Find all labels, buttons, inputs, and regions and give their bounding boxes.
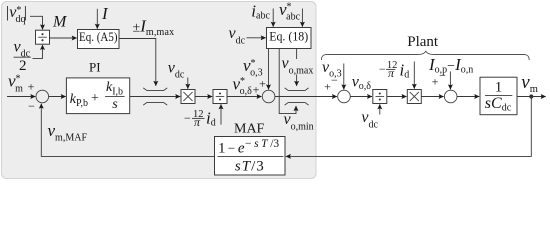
wire S2 through SAT2 to S3 [275, 96, 337, 98]
node v*o,delta label [233, 74, 253, 97]
wire Eq.(18) to vo,min limit [279, 49, 296, 114]
node vdc label (multiplier X1) [168, 60, 185, 81]
node M label [52, 14, 68, 31]
summing junction S1 [36, 90, 49, 103]
node Plant label [407, 34, 439, 50]
node MAF label [234, 122, 265, 137]
node vo,3 label (plant) [322, 59, 342, 80]
summing junction S2 [262, 90, 275, 103]
svg-text:−: − [184, 111, 191, 125]
svg-text:Plant: Plant [407, 34, 439, 50]
wire PI to multiplier X1 [130, 96, 181, 98]
controller background region [2, 2, 317, 179]
multiplier block X1 [181, 90, 195, 104]
svg-text:+: + [324, 80, 331, 94]
wire X1 to divider D2 [195, 96, 212, 98]
summing junction S3 [338, 90, 351, 103]
wire vm feedback to MAF [286, 97, 531, 157]
node S1 minus sign [28, 99, 35, 113]
node S2 plus sign (top) [259, 77, 266, 91]
wire v*o,3 from Eq.(18) to S2 [268, 49, 270, 89]
wire I input [96, 9, 98, 29]
node S4 minus sign [439, 69, 446, 83]
node vo,max label [281, 55, 314, 76]
node vdc label (plant divider D3) [361, 109, 378, 130]
svg-text:π: π [194, 115, 201, 129]
wire v*m input [7, 96, 35, 98]
saturation limiter SAT2 [285, 88, 309, 105]
node S2 plus sign (left) [253, 83, 260, 97]
svg-text:M: M [52, 14, 68, 31]
node vm junction dot [529, 94, 533, 98]
wire Eq.(18) to vo,max limit [296, 49, 298, 86]
block Eq. (18) [267, 28, 312, 49]
wire D2 to summing junction S2 [227, 96, 262, 98]
svg-text:−: − [28, 99, 35, 113]
saturation limiter SAT1 [143, 88, 167, 105]
svg-text:Eq. (18): Eq. (18) [269, 29, 308, 44]
wire vdc to divider D3 [379, 104, 381, 114]
wire S3 to divider D3 [350, 96, 372, 98]
wire M: divider to Eq.(A5) [50, 37, 77, 39]
node v*m label [8, 72, 23, 95]
svg-text:π: π [388, 66, 395, 80]
wire id to divider D2 [220, 104, 222, 124]
node S1 plus sign [28, 80, 35, 94]
block PI compensator kP,b + kI,b/s [66, 78, 129, 114]
node v*o,3 label [243, 56, 263, 79]
block 1/(sCdc) [480, 77, 517, 115]
svg-text:sT/3: sT/3 [235, 158, 265, 174]
svg-text:+: + [432, 75, 439, 89]
node PI label [89, 59, 101, 74]
divider block D3 (÷) [373, 90, 387, 104]
svg-text:−: − [379, 62, 386, 76]
wire vdc to Eq.(18) [247, 37, 266, 39]
wire S4 to plant integrator [457, 96, 479, 98]
divider block D1 (÷) [36, 30, 50, 44]
wire vm output [517, 96, 546, 98]
wire |v*dq| to divider D1 [30, 16, 43, 29]
node S3 plus sign [324, 80, 331, 94]
svg-text:Eq. (A5): Eq. (A5) [79, 29, 118, 44]
node vdc/2 label [14, 39, 31, 74]
svg-text:2: 2 [19, 58, 27, 74]
block MAF (1-e^-sT/3)/(sT/3) [215, 137, 286, 176]
block Eq. (A5) [78, 29, 120, 49]
wire Io,p-Io,n to S4 [449, 72, 451, 90]
wire D3 to multiplier X2 [387, 96, 407, 98]
wire iabc input [272, 9, 274, 27]
summing junction S4 [444, 90, 457, 103]
divider block D2 (÷) [213, 90, 227, 104]
svg-text:s: s [112, 97, 118, 112]
wire ±Im,max to saturation SAT1 [119, 39, 156, 86]
node S3 minus sign [331, 73, 338, 87]
node S4 plus sign [432, 75, 439, 89]
wire vdc/2 to divider D1 [33, 45, 43, 59]
svg-text:−: − [439, 69, 446, 83]
wire X2 to summing junction S4 [421, 96, 443, 98]
node vo,min label [284, 111, 314, 132]
node I label [101, 4, 109, 23]
wire MAF output to S1 [41, 104, 214, 157]
wire vdc to multiplier X1 [187, 78, 189, 89]
svg-text:+: + [28, 80, 35, 94]
svg-text:−: − [331, 73, 338, 87]
node vm,MAF label [48, 121, 88, 144]
wire S1 to PI [49, 96, 66, 98]
wire vo,3 input to S3 [343, 64, 345, 90]
wire id to multiplier X2 [413, 62, 415, 89]
node -12/pi id label (plant) [379, 60, 409, 80]
svg-text:MAF: MAF [234, 122, 265, 137]
wire v*abc input [301, 9, 303, 27]
node |v*dq| label [6, 4, 27, 25]
node vdc label (Eq.18) [229, 25, 246, 46]
svg-text:1: 1 [495, 79, 503, 95]
node Io,p - Io,n label [428, 55, 473, 76]
node vm label [521, 72, 538, 95]
node -12/pi id label (controller) [184, 109, 216, 130]
node iabc label [251, 2, 270, 22]
plant overbrace [321, 51, 529, 60]
node vo,delta label [352, 74, 372, 93]
node ±Im,max label [133, 17, 175, 38]
svg-text:PI: PI [89, 59, 101, 74]
node v*abc label [279, 0, 301, 22]
multiplier block X2 [407, 90, 421, 104]
